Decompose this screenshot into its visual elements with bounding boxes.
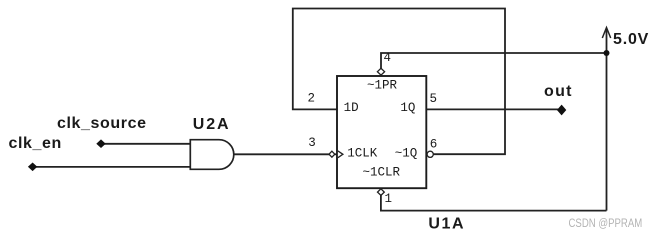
- svg-text:4: 4: [384, 51, 392, 65]
- and-gate U2A: [190, 140, 233, 170]
- pin marker diamond 1CLK (pin 3): [329, 151, 335, 157]
- svg-text:CSDN @PPRAM: CSDN @PPRAM: [569, 217, 643, 230]
- svg-text:5: 5: [430, 92, 438, 106]
- svg-text:2: 2: [308, 92, 316, 106]
- svg-text:5.0V: 5.0V: [613, 31, 649, 48]
- svg-text:1CLK: 1CLK: [347, 147, 378, 161]
- svg-text:out: out: [544, 83, 573, 100]
- svg-text:1: 1: [385, 192, 393, 206]
- svg-text:U2A: U2A: [193, 116, 231, 133]
- svg-text:~1CLR: ~1CLR: [363, 166, 401, 180]
- svg-text:clk_source: clk_source: [57, 115, 147, 132]
- svg-text:3: 3: [308, 136, 316, 150]
- pin marker diamond ~1CLR (pin 1): [378, 189, 385, 196]
- svg-text:1Q: 1Q: [400, 101, 415, 115]
- wire ~1CLR (pin 1) to 5.0V rail bottom: [381, 195, 607, 210]
- svg-text:U1A: U1A: [428, 216, 465, 233]
- watermark: [569, 217, 643, 230]
- clock chevron inside U1A: [338, 151, 343, 158]
- svg-text:clk_en: clk_en: [9, 135, 62, 152]
- node clk_en terminal diamond: [28, 163, 37, 172]
- wire feedback net ~1Q (pin 6) to 1D (pin 2): [293, 9, 505, 155]
- wire 5.0V rail vertical: [606, 28, 608, 211]
- wire pin3 diamond to U1A edge: [335, 153, 337, 155]
- node clk_source terminal diamond: [96, 139, 105, 148]
- wire clk_source input to U2A pin: [101, 143, 190, 145]
- node out terminal diamond: [557, 105, 566, 116]
- wire ~1PR (pin 4) to 5.0V rail: [381, 53, 607, 69]
- wire 1Q (pin 5) to out: [426, 108, 559, 110]
- svg-text:6: 6: [430, 138, 438, 152]
- flip-flop U1A body: [337, 76, 426, 188]
- power symbol 5.0V arrow: [602, 28, 610, 39]
- svg-text:1D: 1D: [344, 101, 359, 115]
- inversion bubble ~1Q (pin 6): [427, 151, 433, 157]
- svg-text:~1PR: ~1PR: [367, 78, 398, 92]
- wire U2A output to 1CLK (pin 3): [234, 153, 329, 155]
- wire clk_en input to U2A pin: [33, 166, 191, 168]
- pin marker diamond ~1PR (pin 4): [377, 68, 384, 75]
- junction dot PR net / 5.0V rail: [604, 50, 610, 56]
- svg-text:~1Q: ~1Q: [395, 147, 418, 161]
